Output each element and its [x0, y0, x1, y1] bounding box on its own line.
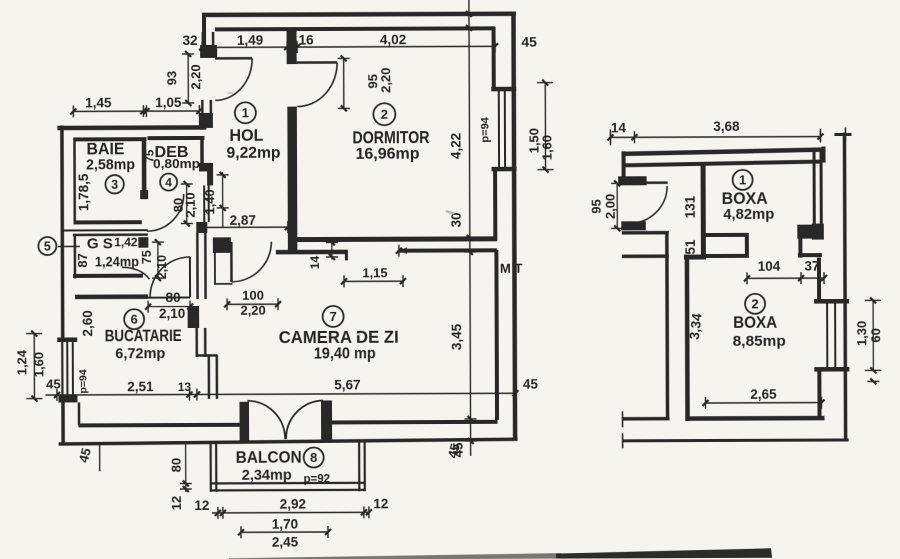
dim label 2,20 door D1 [188, 64, 203, 89]
dim label 131 [683, 195, 698, 218]
dim label 1,42 [114, 235, 138, 249]
svg-text:2,10: 2,10 [159, 306, 185, 321]
window label p=94 right [479, 116, 491, 142]
svg-text:75: 75 [144, 149, 156, 162]
svg-text:2,10: 2,10 [183, 192, 198, 217]
door swing D1 [215, 58, 252, 100]
room area 0,80mp [153, 156, 200, 171]
svg-text:2,58mp: 2,58mp [86, 156, 135, 173]
svg-text:p=94: p=94 [77, 369, 89, 393]
tick 3,68 end [819, 129, 821, 142]
dim line top (1,49 | 16 | 4,02) [199, 40, 498, 53]
svg-text:3,68: 3,68 [713, 119, 740, 134]
wall spine upper lines [202, 100, 211, 114]
dim label 3,45 [449, 323, 464, 350]
svg-text:M T: M T [500, 261, 522, 276]
dim label 95 boxa [589, 199, 604, 214]
dim label 2,20 door D2 [378, 68, 393, 93]
outer bottom line boxa [623, 432, 849, 448]
window right (p=94) pane lines [499, 88, 505, 171]
wall kitchen top right [148, 296, 190, 298]
wall gs left [74, 234, 77, 278]
room label G S [87, 235, 113, 252]
svg-text:1,60: 1,60 [539, 135, 554, 160]
dim label 80 rot balcony [169, 458, 184, 473]
wall gs bottom [73, 274, 143, 278]
dim label 2,10 kitchen [159, 306, 185, 321]
svg-text:2,00: 2,00 [603, 194, 618, 219]
window kitchen panes [67, 341, 73, 395]
door swing D5 gs [122, 267, 150, 279]
dim label 2,60 rot [80, 310, 95, 336]
svg-text:1,49: 1,49 [237, 33, 263, 48]
dim line 75/2,10 gs [152, 239, 164, 281]
svg-text:4,02: 4,02 [380, 32, 406, 47]
svg-text:CAMERA DE ZI: CAMERA DE ZI [279, 327, 399, 347]
room area 2,58mp [86, 156, 135, 173]
svg-text:0,80mp: 0,80mp [153, 156, 200, 171]
svg-text:2: 2 [381, 107, 388, 122]
dim label 2,92 [280, 497, 306, 512]
wall right inner upper [492, 27, 496, 90]
wall boxa1 bottom top line [705, 233, 749, 237]
door swing D7 boxa [629, 186, 667, 223]
svg-text:3: 3 [111, 178, 118, 192]
room label HOL [229, 126, 263, 145]
dim label 2,45 [272, 535, 299, 550]
dim label 45 bottom-right corner [523, 377, 539, 392]
wall deb right [200, 138, 204, 163]
svg-text:16: 16 [299, 33, 315, 48]
room number 1 BOXA1 [733, 170, 753, 190]
dim label 2,87 [230, 213, 256, 228]
wall gs top lines [63, 230, 148, 235]
dim label 1,60 right [539, 135, 554, 160]
door swing D3 [231, 242, 271, 282]
svg-text:1,60: 1,60 [31, 352, 46, 377]
room number 2 DORMITOR [373, 103, 395, 125]
dim label 45 right-bottom [451, 442, 466, 458]
room number 1 HOL [235, 102, 256, 123]
wall spine jog block [199, 163, 213, 186]
dim line 80/2,10 kitchen [145, 300, 193, 312]
tick line left boxa [609, 129, 611, 145]
dim label 4,22 [448, 133, 463, 159]
svg-text:2,34mp: 2,34mp [242, 467, 292, 484]
room number 7 CAMERA [323, 306, 344, 327]
wall corridor bottom L [623, 411, 670, 427]
wall boxa2 right inner [817, 258, 821, 304]
door swing D4 deb [147, 194, 184, 231]
door leaf D7 boxa [647, 181, 668, 184]
wall bottom inner left [78, 402, 240, 426]
dim line 95/2,00 boxa [611, 180, 623, 231]
window boxa2 cap bottom [814, 367, 849, 372]
dim label 12 left [194, 498, 209, 513]
svg-text:12: 12 [194, 498, 209, 513]
door leaf D2 [297, 61, 337, 64]
wall deb top [147, 136, 204, 140]
svg-text:4,82mp: 4,82mp [723, 206, 774, 223]
wall boxa top inner [622, 162, 822, 166]
wall bottom inner right [332, 420, 498, 425]
wall right outer cap [834, 127, 851, 141]
wall corridor bottom line [622, 254, 669, 258]
room number 4 DEB [160, 174, 177, 191]
wall left outer thin behind window [61, 340, 63, 402]
dim label 2,10 rot a [183, 192, 198, 217]
svg-text:60: 60 [868, 328, 883, 343]
dim label 30 [449, 212, 464, 227]
svg-text:75: 75 [140, 250, 154, 264]
dim label 3,68 [713, 119, 740, 134]
svg-text:45: 45 [521, 34, 537, 50]
dim label 12 rot balcony [169, 496, 184, 511]
room area 1,24mp [95, 254, 139, 269]
wall baie top outer [57, 125, 206, 130]
door leaf D1 [215, 57, 252, 60]
wall right inner lower [494, 250, 499, 420]
room number 2 BOXA2 [745, 294, 765, 314]
dim label 104 [758, 259, 781, 274]
svg-text:6: 6 [131, 312, 138, 327]
wall B bottom face right [396, 244, 497, 256]
svg-text:2,20: 2,20 [378, 68, 393, 93]
svg-text:2,20: 2,20 [188, 64, 203, 89]
svg-text:5,67: 5,67 [334, 377, 360, 392]
dim label 2,10 gs [155, 255, 169, 279]
dim label 16 [299, 33, 315, 48]
wall zigzag block [797, 225, 824, 239]
dim label 32 [183, 33, 198, 48]
room label BAIE [86, 139, 124, 158]
dim label 1,15 [362, 265, 387, 280]
room number 8 BALCON [304, 447, 324, 467]
svg-text:3,45: 3,45 [449, 323, 464, 350]
dim line 1,40 [217, 172, 229, 227]
dim line 12/80 vertical [180, 442, 192, 492]
door swing balcony left [247, 401, 285, 440]
dim label 45 bottom-left [76, 445, 100, 471]
wall right outer boxa [844, 132, 845, 441]
door swing D6 kitchen [150, 257, 190, 297]
svg-text:14: 14 [611, 120, 627, 135]
svg-text:p=94: p=94 [479, 116, 491, 142]
dim line 2,87 [207, 221, 291, 233]
wall boxa top outer [622, 150, 826, 154]
dim line 80 deb vertical [181, 181, 193, 227]
svg-text:45: 45 [523, 377, 539, 392]
wall bottom outer [59, 439, 518, 444]
dim label 2,20 door D3 [240, 303, 265, 318]
wall boxa1 bottom lower line [705, 254, 749, 258]
pier jamb B [287, 29, 297, 65]
dim label 2,00 boxa [603, 194, 618, 219]
dim label 1,05 [155, 95, 182, 110]
wall baie inner left [73, 137, 76, 224]
dim line 93/2,20 [182, 51, 194, 106]
svg-text:2,45: 2,45 [272, 535, 299, 550]
wall spine junction block [199, 113, 213, 128]
dim label 1,78 rot [76, 173, 91, 211]
dim label 4,02 [380, 32, 406, 47]
scan smudge b [500, 261, 522, 276]
dim line 100/2,20 [224, 298, 281, 310]
dim label 80 kitchen [166, 290, 181, 305]
dim line 2,92 [212, 506, 372, 519]
room area 16,96mp [355, 146, 419, 163]
svg-text:1,42: 1,42 [114, 235, 138, 249]
jamb gs right [138, 237, 148, 248]
room label BUCATARIE [105, 327, 182, 345]
dim label 1,70 [272, 517, 298, 532]
svg-text:5: 5 [44, 240, 51, 254]
svg-text:6,72mp: 6,72mp [115, 345, 165, 362]
svg-text:1,15: 1,15 [362, 265, 387, 280]
label p=92 [303, 473, 330, 485]
wall spine step [197, 354, 217, 357]
wall boxa1 right block [812, 224, 824, 240]
wall boxa top right cap [821, 147, 825, 163]
scan bar light [229, 553, 561, 559]
wall B bottom face left [276, 252, 348, 261]
wall spine kitchen lines [197, 233, 205, 299]
room label BALCON [236, 449, 302, 467]
room area 4,82mp [723, 206, 774, 223]
room area 8,85mp [733, 333, 786, 350]
dim label 14 wall B [308, 255, 322, 269]
balcony rail right [359, 441, 365, 491]
room number 5 GS [38, 237, 56, 255]
scan smudge d [356, 333, 361, 335]
dim label 1,45 [85, 95, 112, 110]
scan smudge c [227, 92, 233, 94]
jamb balcony right [321, 400, 332, 441]
wall spine mid lines [204, 185, 209, 222]
window right cap bottom [492, 167, 517, 172]
dim label 14 boxa [611, 120, 627, 135]
door leaf D6 kitchen [189, 257, 191, 297]
dim line 1,15 [341, 275, 406, 287]
svg-text:2,65: 2,65 [750, 387, 777, 402]
wall spine dormitor [287, 107, 297, 253]
svg-text:131: 131 [683, 195, 698, 218]
room number 6 BUCATARIE [124, 309, 144, 329]
wall left outer lower [61, 402, 65, 443]
svg-text:1,05: 1,05 [155, 95, 182, 110]
dim label 93 [164, 71, 179, 86]
wall corridor top line [622, 231, 669, 235]
svg-text:2,60: 2,60 [80, 310, 95, 336]
svg-text:BOXA: BOXA [733, 314, 777, 332]
svg-text:12: 12 [373, 496, 388, 511]
svg-text:G S: G S [87, 235, 113, 252]
dim label 2,65 [750, 387, 777, 402]
wall top inner line [215, 28, 495, 29]
wall top outer [202, 14, 516, 15]
wall central 131 [701, 165, 706, 257]
dim line 1,45/1,05 [70, 105, 202, 118]
scan smudge a [445, 210, 454, 215]
wall baie/deb divider [142, 137, 147, 198]
wall boxa2 left [685, 257, 690, 421]
svg-text:95: 95 [589, 199, 604, 214]
wall B top face [295, 236, 497, 242]
room area 6,72mp [115, 345, 165, 362]
dim label 1,50 [526, 128, 541, 153]
svg-text:19,40 mp: 19,40 mp [314, 345, 376, 362]
dim line 104/37 [744, 272, 827, 284]
svg-text:80: 80 [169, 458, 184, 473]
dim line 2,51/13/5,67 [45, 387, 518, 401]
svg-text:45: 45 [46, 376, 61, 391]
svg-text:1,45: 1,45 [85, 95, 112, 110]
window right cap top [491, 87, 516, 92]
room label DEB [154, 144, 188, 161]
scan bar dark [556, 548, 772, 558]
dim label 75 deb [144, 149, 156, 162]
dim label 12 right [373, 496, 388, 511]
wall left outer [60, 125, 64, 340]
svg-text:1,78,5: 1,78,5 [76, 173, 91, 211]
dim label 1,30 [854, 321, 869, 346]
room label BOXA1 [722, 190, 768, 208]
room area 19,40 mp [314, 345, 376, 362]
svg-text:12: 12 [169, 496, 184, 511]
dim label 1,60 left [31, 352, 46, 377]
wall spine lowest [209, 355, 217, 399]
dim line 1,50/1,60 [537, 80, 553, 173]
wall baie bottom [75, 220, 142, 224]
svg-text:2,87: 2,87 [230, 213, 256, 228]
dim label 13 [178, 380, 192, 394]
wall zigzag bottom [798, 253, 822, 257]
balcony rail bottom [212, 483, 365, 491]
wall corridor right line [665, 232, 669, 420]
svg-text:2,20: 2,20 [240, 303, 265, 318]
dim label 45 left [46, 376, 61, 391]
dim label 60 [868, 328, 883, 343]
wall boxa1 bottom cap [745, 235, 749, 256]
jamb kitchen door [188, 306, 200, 328]
svg-text:100: 100 [242, 288, 264, 303]
svg-text:2,92: 2,92 [280, 497, 306, 512]
wall boxa2 right inner lower [817, 372, 821, 418]
balcony rail left [211, 442, 217, 492]
dim line 1,30/60 [865, 297, 881, 384]
dim line 1,70 [238, 526, 331, 538]
window kitchen cap top [57, 337, 77, 342]
dim label 51 [683, 239, 698, 255]
jamb boxa door top [618, 176, 647, 185]
dim label 87 rot [75, 253, 90, 268]
dim line 95/2,20 [338, 55, 350, 111]
svg-text:104: 104 [758, 259, 781, 274]
svg-text:7: 7 [329, 309, 336, 324]
room label CAMERA DE ZI [279, 327, 399, 347]
svg-text:30: 30 [449, 212, 464, 227]
svg-text:14: 14 [308, 255, 322, 269]
svg-text:1,24: 1,24 [14, 349, 29, 375]
svg-text:1,40: 1,40 [202, 189, 217, 214]
dim label 2,51 [127, 379, 154, 394]
door swing balcony right [286, 400, 323, 439]
wall B pier (camera door jamb) [213, 237, 231, 253]
dim label 75 gs [140, 250, 154, 264]
svg-text:4,22: 4,22 [448, 133, 463, 159]
jamb deb door [140, 190, 148, 199]
svg-text:1: 1 [739, 173, 746, 188]
wall spine lower left line [197, 328, 206, 357]
svg-text:p=92: p=92 [303, 473, 330, 485]
window boxa2 cap top [814, 299, 849, 304]
wall boxa1 right lines [814, 148, 821, 228]
dim label 37 [804, 259, 819, 274]
svg-text:93: 93 [164, 71, 179, 86]
door swing D2 [297, 62, 337, 106]
svg-text:HOL: HOL [229, 126, 263, 145]
dim label 3,34 [687, 312, 705, 340]
svg-text:1,30: 1,30 [854, 321, 869, 346]
svg-text:8: 8 [310, 450, 317, 465]
svg-text:32: 32 [183, 33, 198, 48]
dim label 95 door D2 [365, 74, 380, 89]
room label DORMITOR [352, 127, 429, 147]
dim line 1,24/1,60 [26, 331, 42, 402]
jamb boxa door bottom [621, 221, 646, 230]
dim label 5,67 [334, 377, 360, 392]
dim label 1,24 [14, 349, 29, 375]
svg-text:13: 13 [178, 380, 192, 394]
svg-text:DORMITOR: DORMITOR [352, 127, 429, 147]
dim label 80 rot [171, 198, 186, 213]
wall top outer left end [202, 13, 206, 48]
pier jamb A [200, 32, 217, 58]
wall baie top inner [74, 137, 146, 141]
dim label 100 [242, 288, 264, 303]
dim line 2,65 [702, 397, 824, 409]
wall kitchen top [75, 294, 148, 299]
window boxa2 panes [827, 304, 835, 368]
dim label 45 top-right [521, 34, 537, 50]
dim label 45 balcony right [445, 442, 463, 460]
dim line 14/3,68 [607, 131, 823, 144]
svg-text:2: 2 [751, 296, 758, 311]
leader line 5 [58, 245, 80, 247]
svg-text:1,24mp: 1,24mp [95, 254, 139, 269]
svg-text:80: 80 [166, 290, 181, 305]
room number 3 BAIE [105, 175, 123, 193]
jamb spine lower [196, 222, 207, 233]
svg-text:9,22mp: 9,22mp [226, 145, 280, 162]
jamb balcony left [239, 402, 249, 442]
svg-text:BALCON: BALCON [236, 449, 302, 467]
dim label 1,49 [237, 33, 263, 48]
svg-text:1,70: 1,70 [272, 517, 298, 532]
window kitchen cap bottom [58, 394, 77, 402]
room area 9,22mp [226, 145, 280, 162]
svg-text:8,85mp: 8,85mp [733, 333, 786, 350]
svg-text:4: 4 [165, 175, 172, 189]
dim 14 ticks [326, 239, 338, 260]
svg-text:BUCATARIE: BUCATARIE [105, 327, 182, 345]
dim label 1,40 [202, 189, 217, 214]
svg-text:51: 51 [683, 239, 698, 255]
svg-text:3,34: 3,34 [687, 312, 705, 340]
wall right outer [513, 12, 515, 441]
wall jog 51 [684, 255, 706, 260]
svg-text:16,96mp: 16,96mp [355, 146, 419, 163]
